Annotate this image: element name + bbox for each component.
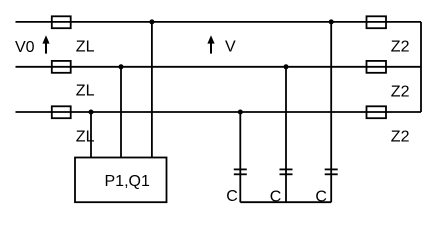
svg-text:ZL: ZL (76, 83, 95, 100)
svg-text:Z2: Z2 (391, 129, 410, 146)
svg-text:C: C (315, 189, 327, 206)
svg-text:P1,Q1: P1,Q1 (105, 173, 150, 190)
svg-text:ZL: ZL (76, 129, 95, 146)
svg-text:C: C (226, 188, 238, 205)
svg-text:C: C (270, 189, 282, 206)
svg-text:V0: V0 (15, 39, 35, 56)
svg-text:Z2: Z2 (391, 84, 410, 101)
svg-text:V: V (225, 38, 236, 55)
svg-text:ZL: ZL (76, 38, 95, 55)
svg-text:Z2: Z2 (391, 39, 410, 56)
